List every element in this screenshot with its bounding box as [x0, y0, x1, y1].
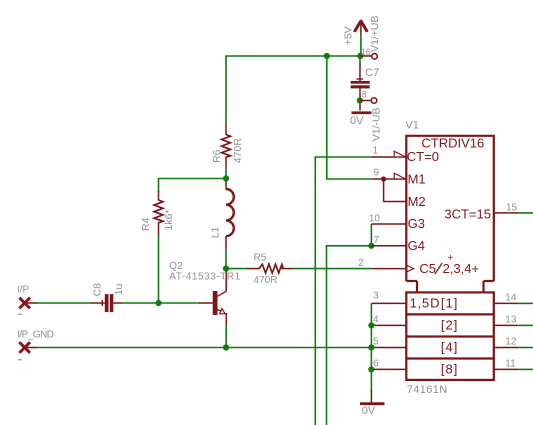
pin 11 [8] out	[494, 359, 533, 370]
svg-text:13: 13	[505, 315, 517, 326]
svg-text:16: 16	[361, 47, 371, 57]
svg-text:2: 2	[358, 258, 364, 269]
pin 9 M1	[372, 168, 426, 187]
wire +5V rail branch to pin 9	[327, 56, 372, 179]
IC V1 upper box	[405, 119, 493, 292]
junction pin 6	[368, 366, 374, 372]
resistor R6	[211, 123, 244, 167]
pin 1 CT=0	[372, 146, 439, 164]
svg-text:0V: 0V	[350, 115, 364, 127]
svg-text:1,5D: 1,5D	[410, 296, 441, 311]
pin 12 [4] out	[494, 337, 533, 348]
svg-text:V1/-UB: V1/-UB	[370, 107, 382, 141]
label V1/+UB	[369, 16, 381, 52]
wire emitter to ground rail	[225, 325, 227, 348]
power symbol 0V under C7	[350, 111, 372, 127]
svg-text:C8: C8	[91, 283, 103, 297]
svg-text:[8]: [8]	[441, 362, 458, 377]
wire junction to R4	[159, 179, 227, 192]
svg-text:470R: 470R	[254, 275, 278, 286]
pin 6 [8]	[371, 359, 458, 377]
junction R6/L1/R4 node	[223, 175, 229, 181]
junction on +5V rail	[324, 53, 330, 59]
junction at pin 8	[357, 97, 363, 103]
svg-text:M1: M1	[408, 171, 426, 186]
input I/P_GND	[17, 330, 54, 361]
inductor L1	[210, 179, 234, 250]
svg-text:10: 10	[369, 214, 381, 225]
svg-text:R5: R5	[254, 252, 267, 263]
junction base node	[155, 300, 161, 306]
svg-text:[1]: [1]	[441, 296, 458, 311]
junction collector node	[223, 266, 229, 272]
svg-text:C5: C5	[419, 261, 436, 276]
wire R6 bottom to junction	[225, 167, 227, 179]
svg-text:12: 12	[505, 337, 517, 348]
label +5V	[342, 26, 354, 45]
svg-text:3: 3	[373, 291, 379, 302]
svg-text:3CT=15: 3CT=15	[444, 207, 491, 222]
pin 5 [4]	[371, 337, 458, 355]
svg-text:14: 14	[505, 293, 517, 304]
junction emitter on ground rail	[223, 344, 229, 350]
pin 15 3CT=15	[444, 203, 533, 222]
pin 3 1,5D[1]	[371, 291, 458, 311]
svg-text:V1: V1	[405, 119, 418, 131]
svg-text:8: 8	[362, 90, 367, 100]
wire L1 to collector node	[225, 249, 227, 269]
svg-text:0V: 0V	[362, 405, 376, 417]
wire R5 to pin 2	[294, 268, 372, 270]
svg-text:15: 15	[506, 203, 518, 214]
svg-text:I/P: I/P	[17, 284, 30, 295]
junction G4 node	[368, 243, 374, 249]
svg-text:+: +	[448, 253, 454, 264]
capacitor C8	[91, 283, 125, 312]
pin 16 (VCC)	[360, 47, 377, 59]
wire top +5V rail	[226, 56, 360, 123]
wire D-input tie column	[370, 303, 372, 390]
resistor R4	[140, 191, 175, 236]
svg-text:G3: G3	[408, 216, 425, 231]
IC lower box (register)	[406, 292, 494, 396]
svg-text:M2: M2	[408, 194, 426, 209]
wire pin 1 net	[315, 157, 373, 425]
wire G4 net down	[327, 246, 372, 425]
svg-text:1: 1	[373, 146, 379, 157]
power symbol 0V bottom	[360, 390, 385, 417]
svg-text:AT-41533-TR1: AT-41533-TR1	[169, 272, 240, 283]
wire G3 to G4	[370, 224, 372, 246]
capacitor C7	[351, 67, 380, 88]
svg-text:[2]: [2]	[441, 318, 458, 333]
svg-text:R6: R6	[211, 149, 223, 163]
svg-text:7: 7	[373, 235, 379, 246]
pin 7 G4	[371, 235, 425, 253]
svg-text:470R: 470R	[232, 138, 244, 164]
power symbol +5V	[354, 20, 367, 57]
svg-text:11: 11	[505, 359, 516, 370]
pin 14 [1] out	[494, 293, 533, 304]
svg-text:G4: G4	[408, 238, 425, 253]
junction +5V at pin 16	[357, 53, 363, 59]
svg-text:I/P_GND: I/P_GND	[17, 330, 54, 341]
junction pin 4	[368, 322, 374, 328]
wire I/P to C8	[27, 302, 92, 304]
label V1/-UB	[370, 107, 382, 141]
wire C8 to base	[122, 302, 200, 304]
svg-text:9: 9	[373, 168, 379, 179]
svg-text:74161N: 74161N	[407, 384, 448, 396]
junction pin 5 ground rail	[368, 344, 374, 350]
svg-text:[4]: [4]	[441, 340, 458, 355]
resistor R5	[247, 252, 294, 286]
junction M1/M2 tie	[381, 176, 426, 208]
pin 2 clock C5	[358, 253, 479, 276]
svg-text:Q2: Q2	[169, 261, 183, 272]
wire collector node to R5	[226, 268, 248, 270]
wire C7 to 0V	[359, 88, 361, 110]
transistor Q2	[169, 261, 240, 326]
wire +5V to C7	[359, 56, 361, 81]
svg-text:C7: C7	[365, 67, 379, 79]
pin 10 G3	[369, 214, 425, 231]
wire I/P_GND rail	[27, 347, 371, 349]
pin 4 [2]	[371, 315, 458, 333]
pin 13 [2] out	[494, 315, 533, 326]
svg-text:CT=0: CT=0	[407, 149, 439, 164]
svg-text:1k6*: 1k6*	[163, 209, 175, 230]
svg-text:+5V: +5V	[342, 26, 354, 45]
svg-text:1u: 1u	[113, 283, 125, 295]
svg-text:R4: R4	[140, 217, 152, 231]
svg-text:L1: L1	[210, 226, 222, 238]
pin 8 (GND)	[360, 90, 377, 104]
input I/P	[17, 284, 30, 315]
wire R4 bottom to base node	[158, 236, 160, 303]
